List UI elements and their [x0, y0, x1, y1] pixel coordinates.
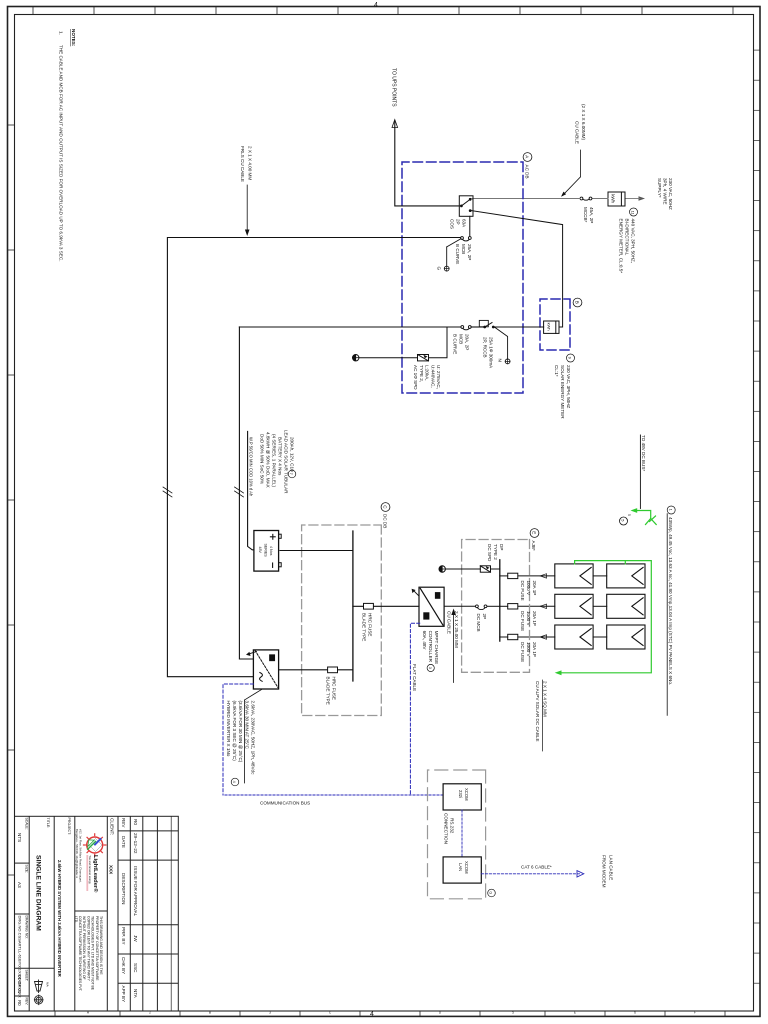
- svg-text:4.8kWH @ 50% DoD, MAX: 4.8kWH @ 50% DoD, MAX: [265, 432, 270, 488]
- svg-text:25A, 2P: 25A, 2P: [467, 244, 472, 260]
- svg-text:U: 275VAC,: U: 275VAC,: [436, 365, 441, 389]
- wire CB2 feeder to inverter AC in: [167, 238, 460, 677]
- earth electrode E1: [353, 355, 359, 361]
- svg-text:CL:1*: CL:1*: [554, 365, 559, 377]
- breaker CB2 25A 2P MCB: [447, 237, 471, 266]
- svg-text:SCALE:: SCALE:: [25, 818, 29, 830]
- svg-text:THE CABLE AND MCB FOR AC INPUT: THE CABLE AND MCB FOR AC INPUT AND OUTPU…: [59, 45, 64, 261]
- solar panel PV5: [555, 594, 593, 618]
- wire crossing marks AC bus: [235, 487, 244, 497]
- wire COS to MCB CB2: [469, 216, 471, 236]
- svg-text:MCCB*: MCCB*: [583, 207, 588, 223]
- svg-text:B: B: [209, 1011, 211, 1015]
- svg-text:FLAT CABLE: FLAT CABLE: [412, 664, 417, 691]
- svg-text:kWh: kWh: [547, 323, 552, 331]
- svg-text:E: E: [531, 531, 536, 534]
- svg-text:A3: A3: [17, 882, 22, 888]
- svg-text:TYPE 2,: TYPE 2,: [419, 365, 424, 382]
- value label COS: [450, 219, 467, 229]
- svg-text:230 VAC, 50HZ: 230 VAC, 50HZ: [668, 178, 673, 210]
- svg-text:AJB*: AJB*: [531, 541, 536, 551]
- svg-text:3.6kVA 30 MIN AT 25°C: 3.6kVA 30 MIN AT 25°C: [245, 701, 250, 750]
- svg-text:XCOM: XCOM: [464, 788, 469, 801]
- svg-text:REV: REV: [121, 818, 126, 828]
- logo/copyright row: [74, 816, 76, 1011]
- svg-text:1000 V: 1000 V: [526, 581, 531, 596]
- solar panel PV3: [607, 625, 645, 649]
- cable label solar DC: [535, 680, 548, 751]
- wire PV string green harness: [560, 561, 651, 673]
- svg-text:1000 V: 1000 V: [526, 611, 531, 626]
- wire battery riser: [280, 550, 353, 552]
- wire SPD1 to earth: [359, 357, 418, 359]
- svg-text:20A 1P: 20A 1P: [532, 611, 537, 626]
- surge arrester SPD1 AC: [418, 355, 429, 361]
- svg-text:ISSUE FOR APPROVAL: ISSUE FOR APPROVAL: [133, 866, 138, 917]
- wire SPD2 to earth: [446, 568, 481, 570]
- svg-text:3: 3: [269, 1011, 271, 1015]
- energy meter M2 solar kWh: [544, 321, 559, 333]
- wire COS to UPS: [395, 121, 460, 206]
- wire RCCB earth link: [495, 327, 508, 358]
- svg-text:DC DB: DC DB: [383, 514, 388, 528]
- svg-text:SHEET:: SHEET:: [25, 970, 29, 982]
- node green down arrow: [631, 508, 638, 513]
- wire crossing marks feeder: [163, 487, 172, 497]
- svg-text:REV:: REV:: [25, 998, 29, 1006]
- svg-text:2P: 2P: [482, 614, 487, 620]
- svg-text:G: G: [489, 891, 493, 894]
- svg-text:(2 X 1 X 6.00MM): (2 X 1 X 6.00MM): [581, 104, 586, 140]
- svg-text:TITLE:: TITLE:: [46, 818, 50, 829]
- svg-text:AC 1Φ SPD: AC 1Φ SPD: [413, 365, 418, 390]
- svg-text:6: 6: [634, 1011, 636, 1015]
- svg-text:45A, 2P: 45A, 2P: [589, 207, 594, 223]
- value label F3: [520, 642, 537, 662]
- wire DC DB bus: [352, 531, 354, 681]
- svg-text:SOLAR ENERGY METER: SOLAR ENERGY METER: [560, 365, 565, 419]
- NOTES: [59, 29, 77, 261]
- energy meter M1 bi-directional kWh: [608, 192, 625, 206]
- svg-text:DESCRIPTION: DESCRIPTION: [121, 873, 126, 904]
- svg-text:W.P 50/CO MIN COD 10% d Ah: W.P 50/CO MIN COD 10% d Ah: [249, 437, 254, 497]
- svg-text:N: N: [498, 359, 503, 362]
- value label MPPT: [422, 631, 439, 672]
- breaker CB3 20A 2P MCB: [461, 326, 471, 330]
- node E label AJB: [530, 529, 539, 551]
- svg-text:CONTROLLER: CONTROLLER: [428, 631, 433, 663]
- node string2 arrow: [540, 604, 547, 608]
- fuse F5 HRC on inverter line: [328, 667, 338, 673]
- node LAN arrow: [577, 871, 584, 877]
- right edge ticks: [55, 1011, 725, 1016]
- value label CB3: [453, 334, 470, 354]
- svg-text:2 X 1 X 4.00 MM: 2 X 1 X 4.00 MM: [248, 146, 253, 180]
- node G label: [488, 889, 496, 897]
- third angle projection target: [34, 995, 44, 1006]
- value label CB4: [476, 614, 487, 632]
- value label LAN from modem: [602, 855, 614, 888]
- svg-text:CONNECTION: CONNECTION: [444, 813, 449, 844]
- svg-text:B CURVE: B CURVE: [453, 334, 458, 354]
- wire comm bus inverter: [223, 684, 253, 795]
- rev table header row: [121, 818, 126, 1002]
- wire SPD2 branch: [491, 568, 500, 570]
- svg-text:(3.6kVA FOR 30 MIN @ 25°C): (3.6kVA FOR 30 MIN @ 25°C): [238, 701, 243, 763]
- revision table grid: [170, 816, 172, 1011]
- svg-text:20A 1P: 20A 1P: [532, 581, 537, 596]
- svg-text:B: B: [574, 301, 579, 304]
- wire CAT6 cable: [481, 873, 580, 875]
- rcd RCCB 25A 300mA: [479, 320, 494, 328]
- svg-text:BI-DIRECTIONAL: BI-DIRECTIONAL: [625, 219, 630, 256]
- value label CB1: [583, 207, 594, 223]
- svg-text:DC MCB: DC MCB: [476, 614, 481, 632]
- svg-text:4: 4: [374, 2, 378, 9]
- svg-text:63A: 63A: [462, 219, 467, 228]
- earth terminal N: [498, 359, 511, 364]
- svg-text:CHK BY: CHK BY: [121, 957, 126, 974]
- value label SPD1: [413, 365, 441, 390]
- svg-text:(4 SERIES, 1 PARALLEL): (4 SERIES, 1 PARALLEL): [271, 434, 276, 487]
- svg-text:SERIES: SERIES: [264, 544, 268, 558]
- svg-text:DRAWING NO:: DRAWING NO:: [25, 916, 29, 939]
- svg-text:CU CABLE: CU CABLE: [574, 121, 579, 144]
- fuse F2 20A: [508, 604, 518, 609]
- svg-text:TYPE 2: TYPE 2: [493, 544, 498, 560]
- wire string3 drop: [518, 636, 555, 638]
- wire grid line lower: [472, 198, 580, 200]
- wire PV string continuation leader: [640, 435, 646, 509]
- node 5 label: [620, 514, 632, 525]
- third angle projection cone: [35, 980, 43, 994]
- wire PV1-PV4 series: [593, 575, 607, 577]
- svg-text:APP BY: APP BY: [121, 986, 126, 1003]
- value label F2: [520, 611, 537, 631]
- svg-text:SINGLE LINE DIAGRAM: SINGLE LINE DIAGRAM: [35, 855, 42, 931]
- solar panel PV4: [555, 564, 593, 588]
- surge arrester SPD2 DC: [480, 566, 490, 572]
- svg-text:XXX: XXX: [109, 865, 114, 875]
- breaker CB1 45A 2P MCCB: [580, 197, 592, 200]
- svg-text:ENERGY METER, CL:0.5*: ENERGY METER, CL:0.5*: [619, 219, 624, 274]
- svg-text:2.6kW HYBRID SYSTEM WITH 3.6kV: 2.6kW HYBRID SYSTEM WITH 3.6kVA HYBRID I…: [57, 860, 62, 978]
- svg-text:CAT 6 CABLE*: CAT 6 CABLE*: [521, 865, 552, 870]
- titleblock outline: [15, 816, 179, 1011]
- wire DC combiner bus: [499, 560, 501, 641]
- svg-text:MPPT CHARGE: MPPT CHARGE: [434, 631, 439, 665]
- svg-text:440 VAC, 3PH, 50HZ,: 440 VAC, 3PH, 50HZ,: [631, 219, 636, 264]
- svg-text:5: 5: [627, 514, 631, 516]
- node string1 arrow: [540, 574, 547, 578]
- solar panel PV1: [607, 564, 645, 588]
- svg-text:B CURVE: B CURVE: [455, 244, 460, 264]
- svg-text:COMMUNICATION BUS: COMMUNICATION BUS: [260, 801, 310, 806]
- svg-text:DC FUSE: DC FUSE: [520, 642, 525, 662]
- node green arrow: [555, 670, 562, 675]
- fuse F4 HRC on MPPT line: [364, 603, 374, 609]
- svg-text:NOTES:: NOTES:: [71, 29, 76, 47]
- svg-text:E: E: [574, 1011, 576, 1015]
- svg-text:3: 3: [428, 667, 432, 669]
- svg-text:LAN CABLE: LAN CABLE: [609, 855, 614, 880]
- wire CB3 down to AC bus: [239, 326, 460, 328]
- value label RS232: [444, 813, 455, 844]
- module XCOM 232i: [443, 784, 481, 810]
- svg-text:R0: R0: [133, 819, 138, 825]
- svg-text:JW: JW: [133, 935, 138, 942]
- inverter U1 hybrid: [253, 650, 278, 689]
- svg-text:LTD.: LTD.: [74, 916, 78, 923]
- svg-text:60A, 48V: 60A, 48V: [422, 631, 427, 651]
- cable label 25MM CU: [447, 609, 459, 683]
- svg-text:G: G: [437, 267, 442, 271]
- wire string1 drop: [518, 575, 555, 577]
- converter U2 MPPT charge controller: [412, 587, 445, 626]
- fuse F1 20A: [508, 573, 518, 578]
- fuse F3 20A: [508, 634, 518, 639]
- svg-text:DP: DP: [499, 544, 504, 550]
- box XCOM dashed: [428, 770, 486, 899]
- svg-text:2 X 1 X 25.00 MM: 2 X 1 X 25.00 MM: [454, 611, 459, 648]
- svg-text:4: 4: [232, 781, 236, 783]
- rev table value row R0: [133, 819, 138, 999]
- wire inverter riser: [279, 669, 353, 671]
- node grid supply arrow: [639, 178, 674, 210]
- svg-text:(6.9kVA FOR 3 SEC @ 25°C): (6.9kVA FOR 3 SEC @ 25°C): [232, 701, 237, 762]
- bottom edge ticks: [8, 125, 15, 875]
- logo address lines: [75, 829, 83, 883]
- svg-text:BATTERY X 4 Nos: BATTERY X 4 Nos: [277, 437, 282, 476]
- solar panel PV2: [607, 594, 645, 618]
- wire battery bottom link: [248, 431, 254, 549]
- svg-text:20A, 2P: 20A, 2P: [465, 334, 470, 350]
- wire CB4 to MPPT: [444, 605, 475, 607]
- value label F4: [362, 613, 373, 641]
- svg-text:435Wp, 49.45 Voc, 13.63 A Isc,: 435Wp, 49.45 Voc, 13.63 A Isc, 41.80 Vmp…: [668, 517, 673, 685]
- wire MPPT to DC bus: [353, 605, 419, 607]
- svg-text:HRC FUSE: HRC FUSE: [368, 613, 373, 636]
- svg-text:01 OF 01: 01 OF 01: [17, 975, 22, 994]
- svg-text:5: 5: [512, 1011, 514, 1015]
- value label inverter: [226, 690, 262, 786]
- svg-text:MCB: MCB: [461, 244, 466, 254]
- svg-text:CONCETTIA SOFTWARE TECHNOLOGIE: CONCETTIA SOFTWARE TECHNOLOGIES PVT.: [78, 916, 82, 991]
- svg-text:kWh: kWh: [611, 194, 616, 203]
- wire comm bus vertical: [223, 794, 443, 796]
- svg-text:4 Nos: 4 Nos: [269, 546, 273, 556]
- wire PV3-PV6 series: [593, 636, 607, 638]
- node string3 arrow: [540, 635, 547, 639]
- wire PV2-PV5 series: [593, 605, 607, 607]
- svg-text:DoD 50% MIN SoC 50%: DoD 50% MIN SoC 50%: [259, 434, 264, 484]
- svg-text:20A 1P: 20A 1P: [532, 642, 537, 657]
- svg-text:2P, RCCB: 2P, RCCB: [483, 337, 488, 358]
- svg-text:XCOM: XCOM: [464, 861, 469, 874]
- svg-text:Bengaluru - 560018. info@light: Bengaluru - 560018. info@lightleader.in: [75, 829, 79, 879]
- value label battery: [249, 430, 296, 497]
- svg-text:DC FUSE: DC FUSE: [520, 611, 525, 631]
- svg-text:4: 4: [370, 1011, 374, 1018]
- svg-text:25A 1Φ 300mA: 25A 1Φ 300mA: [489, 337, 494, 369]
- node green cable continuation: [635, 511, 657, 525]
- TITLEBLOCK: [15, 816, 179, 1011]
- changeover switch COS 63A 2P: [459, 196, 473, 217]
- inverter adjust arrow: [246, 652, 257, 657]
- svg-text:2 X 1 X 4 SQ.MM: 2 X 1 X 4 SQ.MM: [543, 681, 548, 717]
- svg-text:U:440VAC,: U:440VAC,: [430, 365, 435, 388]
- svg-text:DC FUSE: DC FUSE: [520, 581, 525, 601]
- svg-text:FROM MODEM: FROM MODEM: [602, 855, 607, 888]
- earth electrode E2: [439, 566, 445, 572]
- copyright text: [74, 916, 103, 991]
- box AJB: [462, 540, 530, 673]
- svg-text:NTS: NTS: [17, 833, 22, 842]
- wire COS contact1 to grid: [470, 198, 473, 200]
- svg-text:1.: 1.: [59, 31, 64, 35]
- svg-text:RS.232: RS.232: [450, 818, 455, 834]
- svg-text:FRLS CU CABLE: FRLS CU CABLE: [240, 146, 245, 182]
- LightLeader logo sun: [83, 833, 107, 857]
- svg-text:230 VAC, 3PH, 50HZ: 230 VAC, 3PH, 50HZ: [566, 365, 571, 409]
- project row: [53, 816, 55, 1011]
- battery BT1: [254, 531, 281, 572]
- svg-text:SSC: SSC: [133, 963, 138, 973]
- bottom strip dividers: [15, 862, 30, 864]
- value label F1: [520, 581, 537, 601]
- svg-text:COS: COS: [450, 219, 455, 229]
- svg-text:R0: R0: [17, 1000, 22, 1006]
- svg-text:LEAD ACID SOLAR TUBULAR: LEAD ACID SOLAR TUBULAR: [283, 430, 288, 494]
- svg-text:DATE: DATE: [121, 836, 126, 848]
- left edge ticks: [33, 7, 733, 15]
- node B label: [573, 298, 582, 307]
- svg-text:You and Greener energy: You and Greener energy: [88, 856, 92, 885]
- svg-text:AC DB: AC DB: [525, 165, 530, 179]
- value label meter M1: [619, 208, 638, 273]
- svg-text:PROJECT:: PROJECT:: [67, 818, 71, 836]
- node A label AC DB: [523, 153, 532, 179]
- wire COS contact2 diagonal to meter: [471, 211, 562, 327]
- box DC DB: [302, 525, 382, 716]
- svg-text:3Ph, 4 WIRE: 3Ph, 4 WIRE: [663, 178, 668, 205]
- wire RCCB to MCB: [471, 326, 484, 328]
- svg-text:1000 V: 1000 V: [526, 642, 531, 657]
- wire AC bus to inverter: [239, 327, 253, 659]
- svg-text:NTA: NTA: [133, 989, 138, 999]
- svg-text:CU CABLE: CU CABLE: [447, 611, 452, 634]
- svg-text:CLIENT:: CLIENT:: [110, 818, 115, 835]
- svg-text:2P: 2P: [456, 219, 461, 225]
- wire fuse drops to DC bus: [500, 576, 508, 637]
- wire comm bus flat cable MPPT: [410, 623, 419, 795]
- wire grid line mid: [592, 198, 608, 200]
- svg-text:48V: 48V: [258, 547, 262, 554]
- svg-text:BLADE TYPE: BLADE TYPE: [326, 677, 331, 705]
- svg-text:SUPPLY*: SUPPLY*: [657, 178, 662, 198]
- svg-text:LightLeader®: LightLeader®: [92, 855, 99, 893]
- svg-text:N/A: N/A: [46, 982, 50, 987]
- box AC DB: [402, 162, 523, 393]
- wire SPD branch: [429, 327, 448, 358]
- svg-text:HYBRID INVERTER X 1No: HYBRID INVERTER X 1No: [226, 701, 231, 757]
- svg-text:L:20kA,: L:20kA,: [425, 365, 430, 381]
- svg-text:HRC FUSE: HRC FUSE: [332, 677, 337, 700]
- svg-text:PRP. BY: PRP. BY: [121, 927, 126, 945]
- wire string2 drop: [518, 605, 555, 607]
- svg-text:MCB: MCB: [459, 334, 464, 344]
- top edge ticks: [754, 50, 761, 983]
- value label CB2: [455, 244, 472, 264]
- node C label DC DB: [381, 503, 390, 529]
- wire bus to CB4: [487, 605, 500, 607]
- wire RS232 link: [461, 810, 463, 857]
- box solar meter: [540, 299, 570, 350]
- svg-text:29–12–22: 29–12–22: [133, 833, 138, 854]
- cable label 6.00MM CU: [561, 104, 586, 197]
- svg-text:LAN: LAN: [458, 863, 463, 871]
- cable label FRLS: [240, 146, 252, 236]
- value label SPD2: [487, 544, 504, 562]
- svg-text:7: 7: [289, 473, 293, 475]
- title row: [28, 816, 30, 1011]
- value label meter M2: [554, 354, 575, 419]
- solar panel PV6: [555, 625, 593, 649]
- node UPS arrow: [391, 68, 398, 128]
- svg-text:200Ah, 12V, C10: 200Ah, 12V, C10: [289, 437, 294, 472]
- svg-text:F: F: [694, 1011, 696, 1015]
- svg-text:CU ALPV SOLAR DC CABLE: CU ALPV SOLAR DC CABLE: [535, 681, 540, 742]
- wire meter M2 down: [495, 326, 544, 328]
- module XCOM LAN: [443, 857, 481, 883]
- svg-text:TO UPS POINTS: TO UPS POINTS: [391, 68, 397, 107]
- svg-text:TO 48V DC BUS*: TO 48V DC BUS*: [641, 435, 646, 471]
- value label F5: [326, 677, 337, 705]
- ground G terminal: [437, 266, 450, 271]
- wire grid line upper: [625, 198, 640, 200]
- svg-text:BLADE TYPE: BLADE TYPE: [362, 613, 367, 641]
- svg-text:232i: 232i: [458, 790, 463, 798]
- svg-text:2.6kVA, 230VAC, 50HZ, 1Ph, 48V: 2.6kVA, 230VAC, 50HZ, 1Ph, 48Vdc: [251, 701, 256, 776]
- svg-text:SIZE:: SIZE:: [25, 865, 29, 874]
- breaker CB4 2P DC MCB: [476, 605, 487, 610]
- svg-text:DC SPD: DC SPD: [487, 544, 492, 562]
- value label RCCB: [483, 337, 494, 369]
- value label PV panels: [667, 506, 675, 715]
